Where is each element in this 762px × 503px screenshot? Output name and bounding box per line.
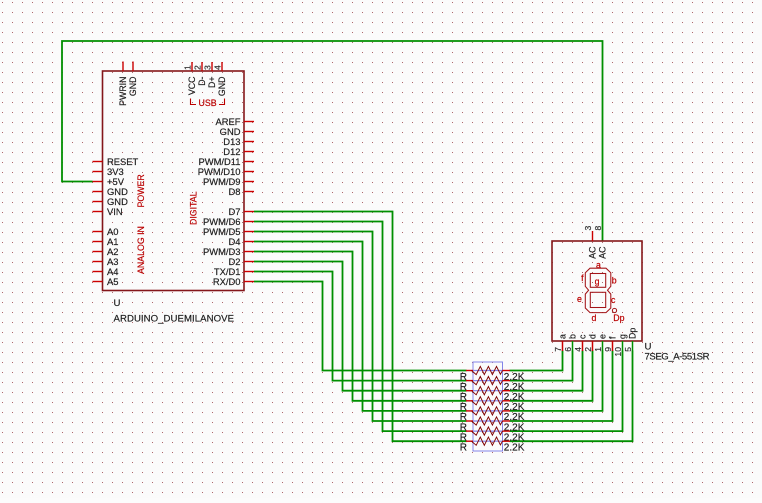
pin D13 (Arduino right) xyxy=(223,136,254,147)
pin PWM/D5 (Arduino right) xyxy=(203,226,254,237)
pin PWM/D11 (Arduino right) xyxy=(198,156,254,167)
pin GND (Arduino left) xyxy=(93,196,129,207)
svg-text:c: c xyxy=(578,334,588,339)
svg-text:DIGITAL: DIGITAL xyxy=(189,191,199,225)
svg-text:D+: D+ xyxy=(207,77,217,89)
IC U 7SEG_A-551SR body xyxy=(552,241,642,341)
pin D12 (Arduino right) xyxy=(223,146,254,157)
svg-text:R: R xyxy=(460,443,467,454)
svg-text:D-: D- xyxy=(197,76,207,85)
svg-text:d: d xyxy=(591,313,596,323)
wire: resistor R2 right lead to 7SEG pin at x=572.5 xyxy=(510,351,573,381)
svg-text:VCC: VCC xyxy=(187,76,197,95)
resistor R6 value 2.2K xyxy=(460,417,525,433)
pin VIN (Arduino left) xyxy=(93,206,123,217)
pin A3 (Arduino left) xyxy=(93,256,119,267)
svg-text:4: 4 xyxy=(213,65,223,70)
pin RX/D0 (Arduino right) xyxy=(213,276,254,287)
decimal point circle Dp xyxy=(612,308,616,312)
svg-text:PWRIN: PWRIN xyxy=(118,77,128,106)
group label USB with brackets xyxy=(191,98,225,108)
pin A2 (Arduino left) xyxy=(93,246,119,257)
pin A5 (Arduino left) xyxy=(93,276,119,287)
svg-text:1: 1 xyxy=(593,347,603,352)
pin b (7SEG pin number 6) xyxy=(563,334,578,352)
pin d (7SEG pin number 2) xyxy=(583,334,598,352)
svg-text:7SEG_A-551SR: 7SEG_A-551SR xyxy=(645,352,710,363)
pin RESET (Arduino left) xyxy=(93,156,139,167)
svg-text:GND: GND xyxy=(217,77,227,97)
pin a (7SEG pin number 7) xyxy=(553,334,568,352)
IC U ARDUINO_DUEMILANOVE body xyxy=(103,71,245,291)
pin AC (7SEG pin number 3) xyxy=(583,226,598,259)
pin GND (Arduino top power) xyxy=(128,62,138,97)
svg-text:Dp: Dp xyxy=(613,313,624,323)
pin PWRIN (Arduino top power) xyxy=(118,62,128,106)
wire: resistor R5 right lead to 7SEG pin at x=602.5 xyxy=(510,351,603,411)
svg-text:USB: USB xyxy=(199,98,217,108)
wire: Arduino PWM/D5 to resistor R6 left lead xyxy=(254,232,467,422)
pin g (7SEG pin number 10) xyxy=(613,334,628,357)
pin Dp (7SEG pin number 5) xyxy=(623,328,638,352)
svg-text:b: b xyxy=(568,334,578,339)
pin GND (Arduino left) xyxy=(93,186,129,197)
wire: resistor R8 right lead to 7SEG pin at x=632.5 xyxy=(510,351,633,442)
wire: Arduino D7 to resistor R8 left lead xyxy=(254,212,467,442)
svg-text:Dp: Dp xyxy=(628,328,638,339)
svg-text:10: 10 xyxy=(613,347,623,357)
pin GND (Arduino right) xyxy=(220,126,254,137)
pin D7 (Arduino right) xyxy=(229,206,254,217)
wire: Arduino D4 to resistor R5 left lead xyxy=(254,242,467,411)
svg-text:A5: A5 xyxy=(107,276,118,287)
svg-text:g: g xyxy=(595,277,600,287)
wire: net N$+5V from Arduino +5V pin up over the top to 7SEG AC pin 8 xyxy=(62,41,603,241)
pin PWM/D9 (Arduino right) xyxy=(203,176,254,187)
svg-text:3: 3 xyxy=(203,65,213,70)
pin D+ (Arduino USB, pin number 3) xyxy=(203,62,218,88)
pin D- (Arduino USB, pin number 2) xyxy=(193,62,208,86)
wire: resistor R3 right lead to 7SEG pin at x=582.5 xyxy=(510,351,583,391)
pin PWM/D6 (Arduino right) xyxy=(203,216,254,227)
wire: Arduino PWM/D3 to resistor R4 left lead xyxy=(254,252,467,401)
svg-text:a: a xyxy=(558,334,568,339)
pin +5V (Arduino left) xyxy=(93,176,125,187)
pin GND (Arduino USB, pin number 4) xyxy=(213,62,228,96)
svg-text:8: 8 xyxy=(593,226,603,231)
svg-text:ARDUINO_DUEMILANOVE: ARDUINO_DUEMILANOVE xyxy=(114,314,235,325)
7-segment digit drawing (figure 8 outline) xyxy=(585,268,611,312)
svg-text:GND: GND xyxy=(128,77,138,97)
resistor R1 value 2.2K xyxy=(460,366,525,382)
pin D2 (Arduino right) xyxy=(229,256,254,267)
svg-text:5: 5 xyxy=(623,347,633,352)
svg-text:9: 9 xyxy=(603,347,613,352)
svg-text:AC: AC xyxy=(588,246,598,259)
wire: resistor R1 right lead to 7SEG pin at x=562.5 xyxy=(510,351,563,371)
pin AREF (Arduino right) xyxy=(215,116,254,127)
pin f (7SEG pin number 9) xyxy=(603,336,618,352)
svg-text:e: e xyxy=(577,294,582,304)
pin A4 (Arduino left) xyxy=(93,266,119,277)
svg-text:2: 2 xyxy=(193,65,203,70)
pin D4 (Arduino right) xyxy=(229,236,254,247)
wire: resistor R4 right lead to 7SEG pin at x=592.5 xyxy=(510,351,593,401)
resistor R5 value 2.2K xyxy=(460,407,525,423)
svg-text:7: 7 xyxy=(553,347,563,352)
pin VCC (Arduino USB, pin number 1) xyxy=(183,62,198,95)
svg-text:1: 1 xyxy=(183,65,193,70)
svg-text:g: g xyxy=(618,334,628,339)
svg-text:D8: D8 xyxy=(229,186,241,197)
wire: Arduino TX/D1 to resistor R2 left lead xyxy=(254,272,467,381)
svg-text:e: e xyxy=(598,334,608,339)
svg-text:c: c xyxy=(611,295,616,305)
svg-text:VIN: VIN xyxy=(107,206,123,217)
resistor R3 value 2.2K xyxy=(460,387,525,403)
svg-text:2.2K: 2.2K xyxy=(504,443,525,454)
wire: Arduino D2 to resistor R3 left lead xyxy=(254,262,467,391)
pin c (7SEG pin number 4) xyxy=(573,334,588,352)
svg-text:4: 4 xyxy=(573,347,583,352)
pin D8 (Arduino right) xyxy=(229,186,254,197)
svg-text:AC: AC xyxy=(598,246,608,259)
svg-text:3: 3 xyxy=(583,226,593,231)
pin A0 (Arduino left) xyxy=(93,226,119,237)
svg-text:ANALOG IN: ANALOG IN xyxy=(136,226,146,274)
pin PWM/D10 (Arduino right) xyxy=(198,166,254,177)
svg-text:2: 2 xyxy=(583,347,593,352)
resistor R4 value 2.2K xyxy=(460,397,525,413)
pin 3V3 (Arduino left) xyxy=(93,166,124,177)
wire: resistor R6 right lead to 7SEG pin at x=612.5 xyxy=(510,351,613,422)
resistor R8 value 2.2K xyxy=(460,437,525,453)
resistor R7 value 2.2K xyxy=(460,427,525,443)
svg-text:a: a xyxy=(596,260,601,270)
pin A1 (Arduino left) xyxy=(93,236,119,247)
svg-text:d: d xyxy=(588,334,598,339)
svg-text:RX/D0: RX/D0 xyxy=(213,276,241,287)
selection box around resistor bank xyxy=(473,362,503,451)
wire: Arduino RX/D0 to resistor R1 left lead xyxy=(254,282,467,371)
resistor R2 value 2.2K xyxy=(460,377,525,393)
pin e (7SEG pin number 1) xyxy=(593,334,608,352)
svg-text:b: b xyxy=(612,275,617,285)
svg-text:U: U xyxy=(114,298,121,309)
wire: resistor R7 right lead to 7SEG pin at x=622.5 xyxy=(510,351,623,432)
wire: Arduino PWM/D6 to resistor R7 left lead xyxy=(254,222,467,432)
pin TX/D1 (Arduino right) xyxy=(214,266,254,277)
svg-text:6: 6 xyxy=(563,347,573,352)
pin PWM/D3 (Arduino right) xyxy=(203,246,254,257)
svg-text:POWER: POWER xyxy=(136,174,146,207)
pin AC (7SEG pin number 8) xyxy=(593,226,608,259)
